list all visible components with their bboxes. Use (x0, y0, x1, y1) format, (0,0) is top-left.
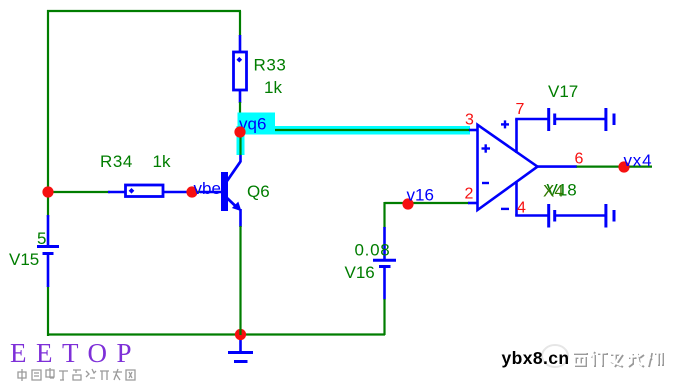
wire left vertical upper (47, 10, 49, 217)
wire output green (577, 166, 653, 168)
watermark logo circle (542, 345, 568, 367)
wire pin2 stub (468, 202, 478, 205)
svg-text:V17: V17 (548, 82, 578, 101)
junction dot base-V15 (42, 186, 53, 197)
junction dot vx4 (618, 161, 629, 172)
minus sign pin4 (501, 208, 509, 210)
watermark Chinese site name (18, 368, 135, 381)
wire pin3 stub (469, 129, 478, 132)
svg-text:v16: v16 (407, 186, 434, 205)
node vq6 label (238, 113, 276, 134)
plus sign pin7 (501, 120, 509, 128)
svg-text:1k: 1k (153, 152, 171, 171)
wire collector vertical (239, 102, 241, 155)
watermark brand characters (574, 352, 663, 367)
svg-text:R34: R34 (100, 152, 133, 171)
svg-text:V15: V15 (9, 250, 39, 269)
transistor Q6 (221, 154, 242, 227)
svg-text:V16: V16 (345, 263, 375, 282)
wire top horizontal (47, 10, 241, 12)
resistor R34 (108, 185, 193, 197)
svg-text:EETOP: EETOP (10, 338, 141, 368)
svg-text:6: 6 (575, 151, 584, 168)
wire v16 vertical green upper (383, 202, 385, 228)
ground (228, 334, 253, 362)
battery V17 (549, 108, 614, 131)
highlighted wire vq6 (cyan) (237, 126, 471, 155)
svg-text:ybx8.cn: ybx8.cn (502, 348, 570, 368)
svg-text:0.08: 0.08 (355, 241, 391, 260)
junction dot vq6 (234, 126, 245, 137)
svg-text:X4: X4 (543, 182, 564, 201)
wire top to R33 (239, 11, 241, 36)
pin 7 stub wire (515, 119, 518, 153)
pin 4 horizontal wire (515, 214, 549, 217)
wire v16 vertical green lower (383, 299, 385, 335)
wire left vertical lower (47, 286, 49, 336)
wire vbe to base (194, 191, 222, 193)
resistor R33 (234, 35, 247, 103)
svg-text:vbe: vbe (194, 179, 221, 198)
wire v16 horizontal (385, 202, 470, 204)
pin 4 stub wire (515, 181, 518, 216)
op-amp X4 (478, 125, 538, 210)
battery V15 (37, 215, 59, 287)
wire emitter to bottom (239, 226, 241, 335)
wire output blue (536, 165, 577, 168)
wire base branch (48, 191, 110, 193)
svg-text:1k: 1k (264, 78, 282, 97)
wire bottom horizontal (47, 333, 385, 335)
pin 7 horizontal wire (515, 118, 549, 121)
svg-text:7: 7 (516, 101, 525, 118)
junction dot ground node (235, 329, 246, 340)
svg-text:Q6: Q6 (247, 182, 270, 201)
battery V16 (373, 227, 396, 300)
svg-text:R33: R33 (254, 56, 287, 75)
battery V18 (549, 204, 614, 228)
junction dot v16 (402, 198, 413, 209)
svg-text:5: 5 (37, 229, 46, 248)
svg-text:vx4: vx4 (624, 151, 653, 170)
svg-text:4: 4 (517, 200, 526, 217)
junction dot vbe (186, 186, 197, 197)
svg-text:2: 2 (465, 186, 474, 203)
svg-text:3: 3 (465, 112, 474, 129)
